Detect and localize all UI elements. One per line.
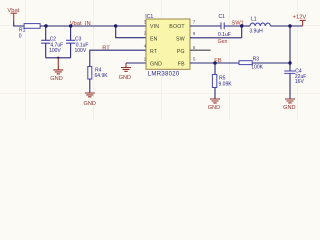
svg-text:RT: RT [102, 46, 110, 52]
wire +12V vertical [289, 26, 291, 71]
svg-text:GND: GND [50, 76, 62, 82]
wire Vbat to R1 [14, 22, 24, 27]
svg-text:0: 0 [19, 34, 22, 40]
wire R3 to output [252, 62, 290, 64]
pin stub PG unconnected [190, 49, 211, 51]
resistor R4 [88, 67, 108, 80]
wire L1 to +12V [271, 25, 303, 27]
svg-text:GND: GND [283, 105, 295, 111]
junction SW1 node [240, 24, 243, 27]
power port +12V [293, 14, 307, 26]
svg-text:LMR38020: LMR38020 [148, 72, 180, 78]
power port Vbat [7, 8, 19, 21]
svg-text:EN: EN [150, 36, 158, 42]
svg-text:+12V: +12V [293, 14, 307, 20]
svg-text:16V: 16V [295, 79, 305, 85]
svg-text:L1: L1 [251, 17, 257, 23]
svg-text:9.09K: 9.09K [219, 81, 233, 87]
svg-text:FB: FB [214, 58, 222, 64]
capacitor C2 [41, 26, 63, 58]
svg-text:R3: R3 [253, 56, 260, 62]
svg-text:100V: 100V [75, 48, 87, 54]
svg-text:GND: GND [208, 105, 220, 111]
wire FB [190, 62, 239, 64]
grid lines [0, 0, 320, 120]
inductor L1 [249, 17, 270, 35]
wire IC GND pin [126, 62, 146, 64]
svg-text:GND: GND [150, 62, 162, 68]
IC IC1 LMR38020 buck regulator body [146, 19, 190, 69]
junction R3 output [288, 61, 291, 64]
ground R5 [208, 88, 220, 111]
svg-text:SW: SW [176, 36, 185, 42]
wire main Vbat_IN net [40, 25, 146, 27]
ground IC [119, 63, 131, 81]
capacitor C3 [66, 26, 88, 58]
svg-text:100V: 100V [49, 48, 61, 54]
junction gnd tap [57, 57, 59, 59]
svg-text:3.9uH: 3.9uH [249, 29, 263, 35]
resistor R5 [212, 63, 232, 88]
junction C2 [44, 24, 47, 27]
svg-text:VIN: VIN [150, 24, 159, 30]
ground C4 [283, 99, 295, 111]
junction C3 [69, 24, 72, 27]
svg-text:GND: GND [119, 75, 131, 81]
capacitor C4 [284, 69, 306, 99]
svg-text:GND: GND [84, 101, 96, 107]
wire BOOT to C1 [190, 25, 221, 27]
ground R4 [84, 79, 96, 107]
resistor R1 [19, 24, 40, 40]
junction FB node [213, 61, 216, 64]
ground C2 C3 [53, 58, 63, 74]
resistor R3 [239, 56, 264, 70]
svg-text:Vbat_IN: Vbat_IN [70, 21, 91, 27]
svg-text:PG: PG [177, 49, 185, 55]
junction EN [114, 24, 117, 27]
junction +12V node [288, 24, 291, 27]
svg-text:100K: 100K [251, 64, 263, 70]
svg-text:64.9K: 64.9K [95, 73, 109, 79]
wire RT [90, 50, 146, 66]
svg-text:0.1uF: 0.1uF [218, 32, 231, 38]
wire SW node to L1 [242, 25, 250, 27]
wire SW pin [190, 37, 242, 39]
svg-text:FB: FB [178, 62, 185, 68]
svg-text:Gen: Gen [218, 39, 228, 45]
svg-text:BOOT: BOOT [169, 24, 185, 30]
svg-text:IC1: IC1 [145, 14, 153, 20]
wire C1 to SW node [224, 26, 242, 38]
wire EN branch [116, 26, 146, 38]
wire C2 C3 bottoms [46, 57, 71, 59]
svg-text:RT: RT [150, 49, 158, 55]
svg-text:C1: C1 [219, 14, 226, 20]
capacitor C1 [218, 14, 231, 45]
